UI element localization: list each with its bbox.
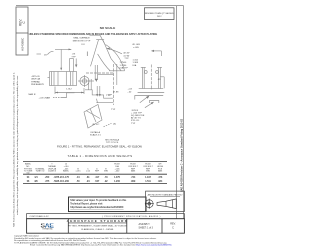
svg-text:CUSTODIAN: G-3C: CUSTODIAN: G-3C: [30, 215, 50, 218]
svg-text:AS4395™: AS4395™: [139, 223, 151, 226]
centre step detail: [88, 79, 90, 90]
svg-text:1.200: 1.200: [114, 181, 120, 183]
svg-text:TYP: TYP: [111, 109, 116, 111]
svg-text:PER AS8879: PER AS8879: [31, 83, 45, 86]
below-body dimension: [54, 87, 56, 95]
svg-text:DIA TYP: DIA TYP: [120, 67, 129, 70]
svg-text:REF: REF: [95, 171, 100, 173]
leader arc from 4X 45 text: [107, 49, 122, 54]
top stub: [69, 59, 71, 72]
svg-text:BASIC: BASIC: [63, 170, 70, 173]
svg-text:06: 06: [27, 181, 30, 183]
svg-text:04: 04: [27, 176, 30, 179]
svg-text:FITTING, PERMANENT - ELASTOMER: FITTING, PERMANENT - ELASTOMER SEAL, 45°…: [68, 224, 127, 227]
svg-text:FLARELESS, CLASS 1 - DETAIL: FLARELESS, CLASS 1 - DETAIL: [81, 228, 114, 231]
svg-text:.50: .50: [76, 181, 80, 183]
svg-text:-.00: -.00: [128, 91, 133, 93]
svg-text:.79: .79: [104, 177, 108, 179]
svg-text:X.X: X.X: [81, 44, 85, 46]
svg-text:SAE Technical Standards Board: SAE Technical Standards Board Rules prov…: [12, 73, 15, 227]
right small dim bracket: [160, 76, 164, 78]
svg-text:.92: .92: [104, 181, 108, 183]
svg-text:SEAL SURFACE: SEAL SURFACE: [73, 37, 90, 40]
svg-text:CLASS 3: CLASS 3: [48, 170, 57, 173]
ball end circles: [82, 79, 86, 83]
svg-text:±0°30': ±0°30': [123, 55, 130, 57]
svg-text:.4375-20: .4375-20: [31, 76, 40, 78]
down arrow: [75, 59, 77, 67]
svg-text:( PROCUREMENT SPECIFICATION: A: ( PROCUREMENT SPECIFICATION: AS4395 ): [102, 215, 160, 218]
custodian row: [27, 214, 185, 219]
vertical centreline of down leg: [113, 64, 115, 105]
svg-text:45° ±2°: 45° ±2°: [92, 124, 99, 126]
top bracket dim: [152, 50, 162, 52]
svg-text:MAX: MAX: [158, 170, 163, 173]
funnel / elbow upper leg: [96, 39, 104, 41]
svg-text:45°: 45°: [44, 54, 47, 56]
bottom detail view (parallelogram): [84, 105, 102, 129]
svg-text:+.03: +.03: [128, 89, 133, 91]
svg-text:Ø .88: Ø .88: [113, 91, 119, 93]
svg-text:SAE AS4395 Revision C - Aerosp: SAE AS4395 Revision C - Aerospace Standa…: [180, 118, 183, 192]
outer bend curve: [106, 45, 125, 71]
leader to text: [140, 96, 149, 103]
svg-text:TYP: TYP: [124, 58, 129, 60]
svg-text:1.308: 1.308: [133, 62, 139, 64]
svg-text:TYP: TYP: [131, 123, 136, 125]
svg-text:+.03 CHAM: +.03 CHAM: [39, 97, 51, 100]
svg-text:Email: CustomerService@sae.org: Email: CustomerService@sae.org SAE WEB A…: [30, 244, 172, 247]
svg-text:AIR INDUSTRY STANDARD PART NO: AIR INDUSTRY STANDARD PART NO: [148, 193, 183, 196]
svg-text:TYP: TYP: [106, 95, 111, 97]
figure text blobs: [29, 37, 162, 145]
svg-text:.869: .869: [131, 181, 136, 183]
svg-text:UNJF-3A: UNJF-3A: [31, 78, 41, 81]
svg-text:1.197: 1.197: [145, 177, 151, 179]
lower leg bottom: [96, 99, 99, 103]
svg-text:TABLE 1 - DIMENSIONS AND WEIGH: TABLE 1 - DIMENSIONS AND WEIGHTS: [68, 154, 133, 158]
svg-text:4X .063: 4X .063: [132, 44, 140, 46]
svg-text:REVISED ITEMS QTY ADDED: REVISED ITEMS QTY ADDED: [145, 12, 174, 15]
svg-text:SCALE 4:1: SCALE 4:1: [90, 134, 102, 137]
svg-text:MIN: MIN: [146, 171, 150, 173]
right body: [142, 67, 144, 88]
top-left revision box: [16, 7, 28, 55]
icon box: [146, 191, 185, 211]
svg-text:SAE values your input. To prov: SAE values your input. To provide feedba…: [70, 199, 127, 202]
svg-text:1.175: 1.175: [63, 177, 69, 179]
svg-text:entirely voluntary, and its ap: entirely voluntary, and its applicabilit…: [16, 75, 19, 215]
svg-text:MIN: MIN: [104, 171, 108, 173]
svg-text:SHEET: 1 of 3: SHEET: 1 of 3: [139, 228, 154, 230]
svg-text:DETAIL A: DETAIL A: [91, 131, 101, 134]
svg-text:1.312: 1.312: [66, 89, 72, 91]
svg-text:.684: .684: [158, 180, 163, 183]
svg-text:1.7500: 1.7500: [120, 62, 127, 64]
svg-text:Technical Report, please visit: Technical Report, please visit: [70, 202, 102, 205]
bottom dim line: [135, 96, 163, 100]
top dim text group: [90, 34, 101, 36]
left body: [50, 72, 77, 86]
page right double border: [176, 6, 178, 219]
svg-text:DIA: DIA: [133, 64, 137, 67]
svg-text:SECTION A-A: SECTION A-A: [105, 139, 119, 142]
svg-text:.375: .375: [45, 181, 50, 183]
L bracket: [55, 48, 71, 50]
svg-text:1.7490: 1.7490: [120, 65, 127, 67]
svg-text:FIGURE 1 - FITTING, PERMANENT,: FIGURE 1 - FITTING, PERMANENT, ELASTOMER…: [57, 144, 142, 148]
svg-text:http://www.sae.org/technical/s: http://www.sae.org/technical/standards/A…: [70, 206, 124, 209]
svg-text:.5625-18: .5625-18: [53, 181, 63, 183]
svg-text:UNLESS OTHERWISE SPECIFIED DIM: UNLESS OTHERWISE SPECIFIED DIMENSIONS AR…: [29, 33, 158, 36]
svg-text:REV.: REV.: [170, 223, 176, 226]
extra lower-left callout: [53, 97, 62, 99]
svg-text:.XX: .XX: [72, 53, 76, 55]
svg-text:.250: .250: [45, 177, 50, 179]
svg-text:MAX R: MAX R: [29, 93, 36, 96]
svg-text:±.005: ±.005: [133, 47, 139, 49]
svg-text:1.312: 1.312: [133, 59, 139, 61]
svg-text:.4375-20: .4375-20: [53, 176, 63, 179]
top-right note box: [145, 8, 175, 20]
svg-text:AT 45° TO: AT 45° TO: [131, 117, 141, 120]
page top border: [16, 5, 184, 7]
extra horizontal line under elbow: [98, 73, 114, 75]
svg-text:TYP: TYP: [71, 56, 76, 58]
svg-text:1/4: 1/4: [34, 176, 38, 179]
svg-text:±.015: ±.015: [76, 171, 82, 173]
svg-text:.476: .476: [158, 176, 163, 179]
svg-text:AS4395C: AS4395C: [20, 37, 24, 51]
horizontal centreline: [86, 72, 114, 74]
stub2 with arrow: [94, 65, 96, 80]
svg-text:AEROSPACE STANDARD: AEROSPACE STANDARD: [67, 219, 129, 223]
svg-text:.547: .547: [95, 180, 100, 183]
bottom tiny print: [14, 235, 172, 247]
svg-text:SEE NOTE 3 TYP: SEE NOTE 3 TYP: [73, 40, 91, 42]
svg-text:(X): (X): [113, 123, 116, 125]
svg-text:1.075: 1.075: [114, 177, 120, 179]
svg-text:C: C: [22, 21, 26, 24]
45 deg leader: [48, 51, 54, 54]
svg-text:3/8: 3/8: [34, 181, 38, 183]
svg-text:±.02: ±.02: [86, 171, 91, 173]
svg-text:TUBE OD: TUBE OD: [36, 171, 45, 173]
svg-text:.81: .81: [86, 177, 90, 179]
inner bend arc: [98, 54, 110, 71]
svg-text:1.260: 1.260: [63, 181, 69, 183]
title block: [27, 219, 185, 234]
feedback box: [69, 197, 147, 212]
svg-text:.XX: .XX: [157, 79, 161, 81]
svg-text:TYP 2 PLCS: TYP 2 PLCS: [106, 142, 119, 144]
svg-text:.417: .417: [95, 176, 100, 179]
svg-text:1.511: 1.511: [145, 181, 151, 183]
svg-text:2012: 2012: [157, 16, 162, 18]
svg-text:.94: .94: [86, 180, 90, 183]
svg-text:MAX: MAX: [131, 170, 136, 173]
svg-text:.744: .744: [131, 176, 136, 179]
svg-text:.44: .44: [76, 176, 80, 179]
svg-text:THREAD: THREAD: [31, 80, 40, 83]
L-corner bracket lower right: [150, 101, 159, 104]
svg-text:-.000: -.000: [115, 171, 120, 173]
svg-text:C: C: [172, 227, 174, 230]
svg-text:4X 45°: 4X 45°: [123, 53, 130, 55]
svg-text:NO SCALE: NO SCALE: [100, 26, 116, 30]
